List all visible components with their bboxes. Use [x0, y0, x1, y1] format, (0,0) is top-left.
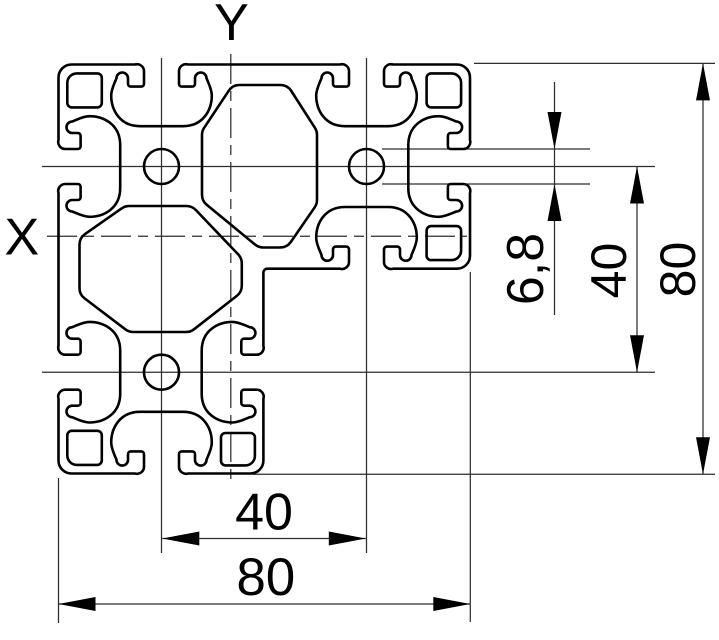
cavity octagon left [79, 206, 241, 332]
profile outer contour with T-slots [58, 64, 470, 474]
arrowhead 80 bottom left [59, 597, 96, 611]
svg-text:40: 40 [581, 243, 637, 299]
corner chamber top-right [427, 73, 462, 107]
arrowhead 40 right top [630, 167, 644, 204]
svg-text:Y: Y [214, 0, 249, 52]
core hole bottom-left [144, 355, 179, 390]
corner chamber right-inner [427, 226, 462, 260]
svg-text:6,8: 6,8 [497, 233, 555, 305]
extension line right edge down [469, 272, 471, 622]
arrowhead 6.8 lower [548, 184, 562, 221]
svg-text:40: 40 [235, 484, 293, 542]
extension line 6.8 top [382, 148, 590, 150]
extension line 6.8 bottom [382, 183, 590, 185]
corner chamber bottom-left [67, 431, 102, 465]
arrowhead 40 right bottom [630, 335, 644, 372]
cavity octagon top [202, 85, 317, 248]
extension line top edge to 80 dim [474, 62, 715, 64]
arrowhead 40 bottom right [329, 532, 366, 546]
extension line bottom edge to 80 dim [253, 473, 715, 475]
node centerline horizontal top [42, 166, 655, 168]
arrowhead 80 right top [696, 63, 710, 100]
extension line left edge down [58, 478, 60, 623]
dim line 80 right [702, 63, 704, 474]
svg-text:X: X [4, 209, 39, 267]
core hole top-right [349, 149, 384, 184]
node centerline horizontal bottom [42, 371, 655, 373]
dim line 40 right [636, 167, 638, 373]
arrowhead 40 bottom left [162, 532, 199, 546]
svg-text:80: 80 [650, 242, 706, 298]
corner chamber bottom-right [221, 433, 255, 465]
X axis centerline [47, 235, 467, 237]
node centerline vertical left [161, 58, 163, 553]
svg-text:80: 80 [236, 548, 295, 607]
dim line 40 bottom [162, 538, 365, 540]
dim line 80 bottom [59, 603, 471, 605]
dim line 6.8 [554, 82, 556, 315]
Y axis centerline [230, 54, 232, 480]
core hole top-left [144, 149, 179, 184]
arrowhead 6.8 upper [548, 112, 562, 149]
node centerline vertical right [366, 58, 368, 553]
arrowhead 80 right bottom [696, 437, 710, 474]
arrowhead 80 bottom right [433, 597, 470, 611]
corner chamber top-left [67, 73, 102, 107]
